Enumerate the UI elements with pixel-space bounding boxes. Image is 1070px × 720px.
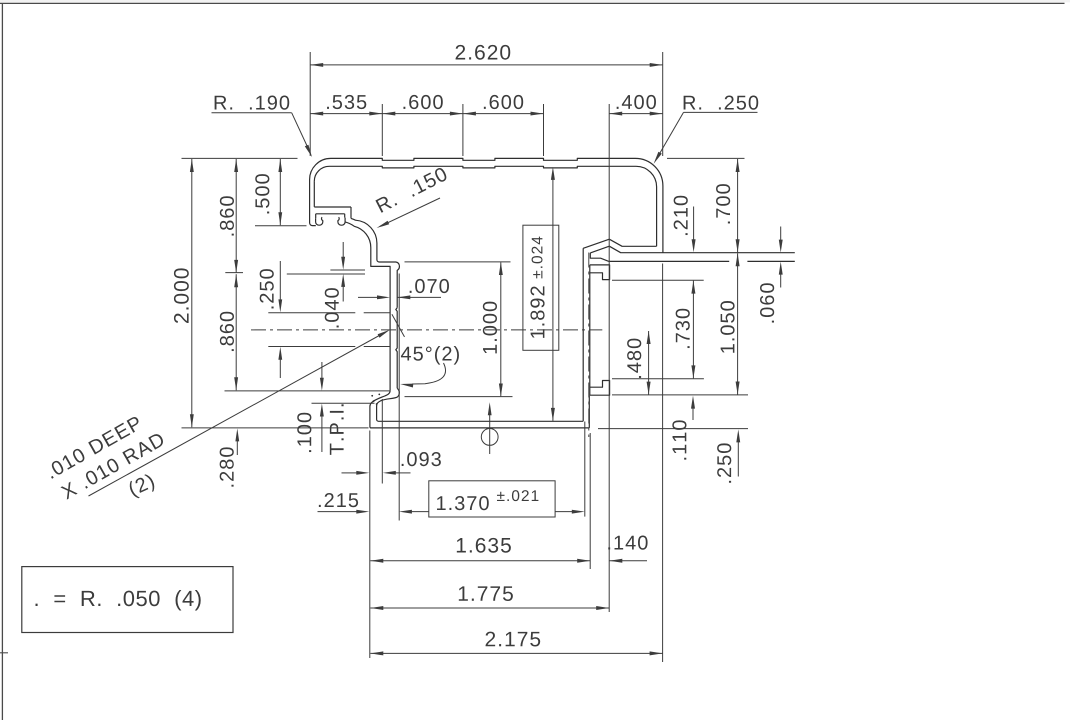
dimension 1.892 +/-.024 boxed	[523, 167, 559, 421]
dimension .535	[310, 95, 382, 116]
dimension 2.000 overall height	[174, 159, 194, 427]
dimension .500	[255, 159, 282, 225]
dimension .860 upper	[220, 159, 238, 273]
dimension .600 first	[382, 95, 463, 116]
barb chevron outer and right wall inner bottom	[583, 239, 656, 248]
extension line x543	[543, 104, 545, 156]
dimension .110	[672, 396, 695, 460]
dimension 1.370 +/-.021 boxed	[399, 481, 585, 517]
shelf step right side	[350, 207, 352, 218]
foot inner face with bead and cavity floor	[377, 388, 584, 421]
dimension .600 second	[463, 95, 544, 116]
profile outer top wall with R.190/R.250 corners and grooves	[310, 158, 663, 252]
extension line left x310	[309, 52, 311, 156]
shelf top surface	[314, 206, 351, 208]
bottom screw hook	[590, 381, 610, 396]
sheet border top line	[0, 2, 1065, 4]
dimension .400	[609, 95, 663, 116]
dimension 2.175	[370, 632, 662, 656]
dimension .860 lower	[220, 274, 238, 390]
extension line x382	[381, 104, 383, 156]
vertical centerline	[588, 253, 590, 438]
dimension .480	[627, 331, 650, 395]
note 45deg (2) chamfers	[392, 314, 459, 387]
leader R. .250 top-right radius	[654, 96, 759, 164]
sheet border left line	[1, 3, 3, 720]
extension line right x662	[662, 52, 664, 156]
long extension line x609	[608, 104, 610, 612]
extension line x399.2 from wall bead to 1.370 dim	[398, 274, 400, 521]
reference line hook bottom y394.9	[612, 394, 748, 396]
screw-slot right gripper foot	[338, 217, 345, 225]
reference line y346.5 chamfer right part	[364, 346, 390, 348]
dimension .140	[608, 536, 647, 563]
dimension .700	[716, 159, 740, 252]
leader R. .190 top-left radius	[212, 96, 313, 158]
profile inner top wall	[314, 166, 656, 246]
tick at .860 junction	[225, 272, 243, 274]
dimension 1.050	[720, 253, 739, 394]
extension line x463	[462, 104, 464, 156]
rib inner (right) wall	[589, 265, 591, 395]
long extension line x369.8	[369, 431, 371, 659]
dimension 1.000	[483, 262, 503, 397]
leader R. .150 corner radius	[375, 166, 448, 228]
sheet fold mark left edge	[0, 652, 8, 654]
dimension 1.635	[370, 538, 590, 563]
extension line x590.2	[589, 433, 591, 569]
profile left wall inner	[313, 182, 315, 207]
extension line ledge y225.8	[255, 225, 307, 227]
sheet top margin band	[0, 0, 1070, 2]
dimension .250 left	[260, 261, 283, 312]
nail fin bottom left part	[609, 260, 729, 262]
extension line top surface to left	[182, 157, 298, 159]
profile left wall outer	[310, 180, 316, 226]
dimension .040 arrows	[325, 242, 345, 327]
mirror arrow at lower chamfer	[278, 347, 282, 378]
extension line top surface to right	[667, 157, 745, 159]
rib to fin transition	[590, 253, 609, 262]
R.150 corner outer and upper step to thin wall	[351, 218, 399, 307]
dimension .060 fin thickness	[760, 227, 783, 323]
screw-slot ceiling	[316, 213, 345, 215]
reference line y390.9 serration top	[225, 390, 390, 392]
long extension line x662.6 right wall	[662, 264, 664, 663]
reference line bottom hook top	[612, 378, 704, 380]
reference line y346.5 chamfer left part	[268, 346, 355, 348]
dimension .250 right	[717, 429, 740, 482]
screw-slot left gripper foot	[316, 217, 323, 225]
dimension .210	[674, 196, 696, 253]
extension line bottom surface to right	[598, 428, 748, 430]
dimension 2.620 overall width	[310, 45, 663, 67]
dimension .100 T.P.I.	[297, 362, 374, 455]
rib right edge below bottom hook	[588, 395, 590, 428]
dimension 1.775	[370, 586, 609, 610]
reference line y270	[330, 269, 365, 271]
R.150 corner inner and thin wall left face	[345, 222, 390, 391]
screw-slot left side wall	[315, 214, 317, 218]
dimension .280	[220, 428, 240, 486]
rib outer (left) wall	[582, 248, 584, 421]
extension line bottom surface to left	[182, 427, 369, 429]
dimension .730	[676, 281, 696, 379]
dimension .093	[342, 452, 441, 475]
screw-slot right side wall	[344, 214, 346, 218]
leader note .010 DEEP X .010 RAD (2)	[45, 330, 390, 500]
serrated foot outer face and profile bottom outer surface	[370, 391, 589, 428]
nail fin bottom right part	[747, 260, 794, 262]
extension line y396.6 foot surface	[405, 396, 513, 398]
extension line x584.8	[584, 422, 586, 517]
dimension .215	[318, 493, 370, 514]
reference line top hook bottom	[612, 279, 704, 281]
reference line y312.8 chamfer right part	[364, 312, 390, 314]
reference line y312.8 chamfer left part	[268, 312, 355, 314]
datum target circle below 1.000	[481, 402, 498, 454]
thin wall right face with 45 deg chamfer notches	[396, 308, 397, 389]
note box . = R. .050 (4)	[22, 567, 233, 633]
top screw hook	[590, 265, 610, 280]
horizontal centerline	[251, 329, 602, 331]
dimension .070 wall thickness	[358, 279, 449, 299]
reference line y274	[287, 273, 365, 275]
extension line y261.9 step surface	[405, 261, 511, 263]
extension line x382.3	[381, 399, 383, 484]
barb chevron inner and nail fin top	[590, 246, 795, 253]
